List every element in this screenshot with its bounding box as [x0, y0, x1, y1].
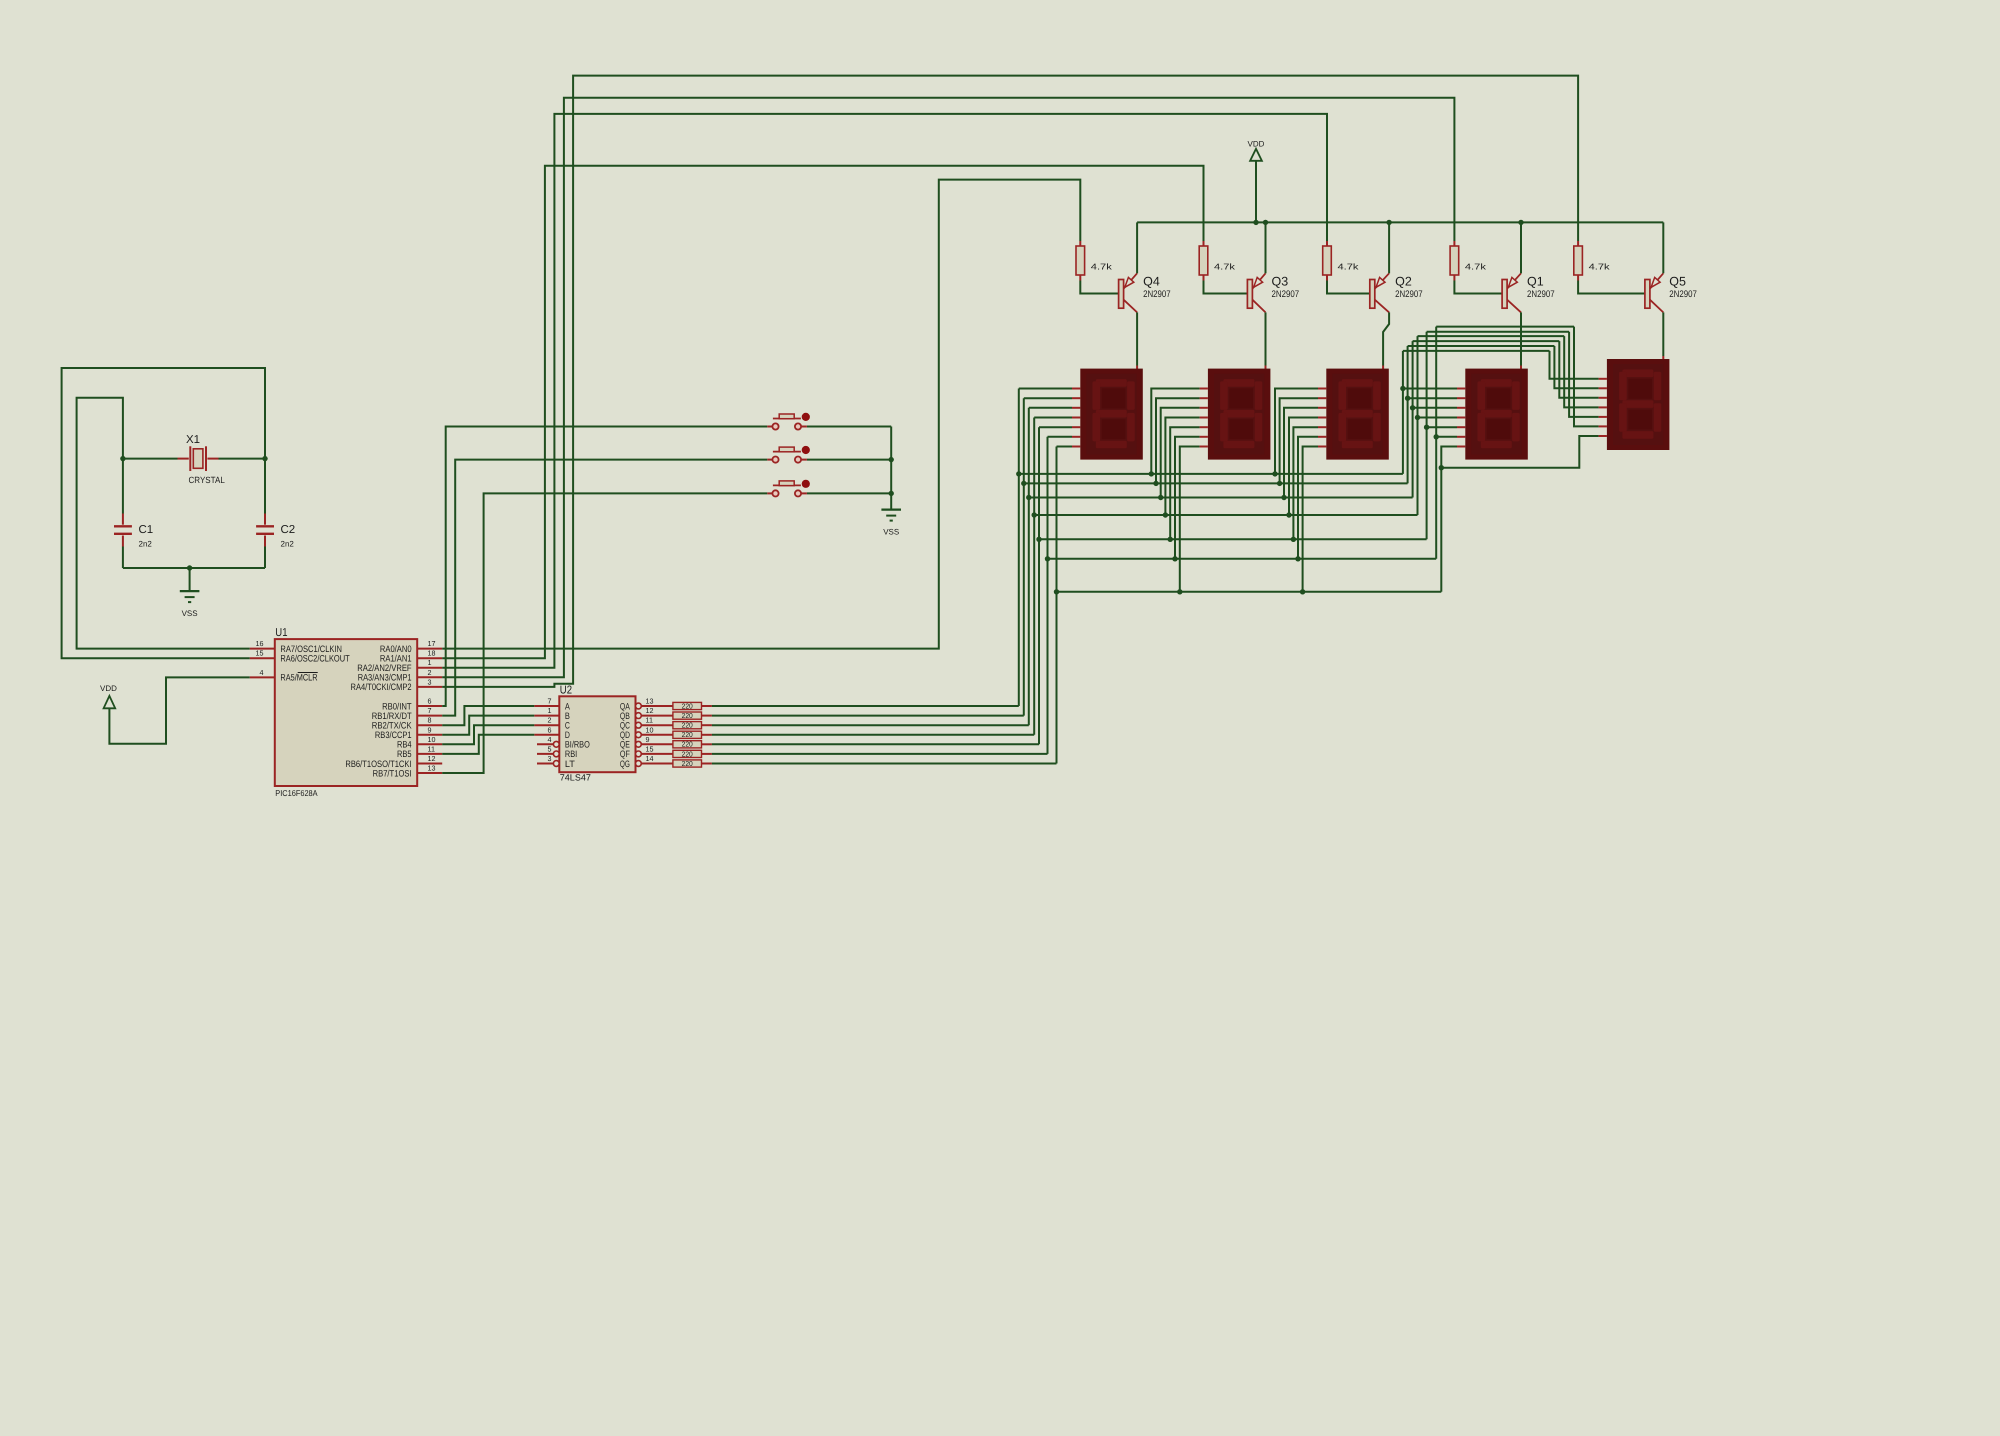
svg-text:B: B	[565, 711, 570, 721]
svg-text:220: 220	[682, 701, 693, 710]
svg-text:QF: QF	[620, 749, 630, 759]
svg-text:6: 6	[428, 697, 432, 706]
svg-text:9: 9	[428, 725, 432, 734]
svg-text:6: 6	[548, 725, 552, 734]
svg-text:Q1: Q1	[1527, 275, 1544, 289]
svg-text:D: D	[565, 730, 570, 740]
svg-text:220: 220	[682, 740, 693, 749]
svg-text:QD: QD	[620, 730, 630, 740]
svg-text:QG: QG	[620, 759, 630, 769]
svg-text:220: 220	[682, 749, 693, 758]
svg-text:Q3: Q3	[1272, 275, 1289, 289]
svg-text:VDD: VDD	[100, 684, 117, 693]
svg-text:3: 3	[428, 677, 432, 686]
svg-text:220: 220	[682, 711, 693, 720]
svg-text:7: 7	[548, 697, 552, 706]
svg-text:9: 9	[646, 735, 650, 744]
svg-text:2n2: 2n2	[281, 540, 295, 549]
svg-text:3: 3	[548, 754, 552, 763]
svg-text:74LS47: 74LS47	[560, 773, 591, 783]
svg-text:4.7k: 4.7k	[1338, 261, 1360, 271]
svg-text:U1: U1	[275, 627, 287, 639]
svg-text:RB6/T1OSO/T1CKI: RB6/T1OSO/T1CKI	[345, 759, 411, 769]
svg-text:Q2: Q2	[1395, 275, 1412, 289]
svg-text:220: 220	[682, 721, 693, 730]
svg-text:QA: QA	[620, 701, 631, 711]
svg-text:RA4/T0CKI/CMP2: RA4/T0CKI/CMP2	[351, 682, 412, 692]
svg-text:A: A	[565, 701, 571, 711]
svg-text:220: 220	[682, 759, 693, 768]
svg-text:2N2907: 2N2907	[1395, 289, 1423, 300]
svg-text:Q5: Q5	[1669, 275, 1686, 289]
svg-text:18: 18	[428, 649, 436, 658]
svg-text:13: 13	[646, 697, 654, 706]
svg-text:VSS: VSS	[883, 528, 899, 537]
svg-text:11: 11	[428, 744, 435, 753]
svg-text:RA3/AN3/CMP1: RA3/AN3/CMP1	[358, 673, 412, 683]
svg-text:PIC16F628A: PIC16F628A	[275, 788, 318, 798]
svg-text:8: 8	[428, 716, 432, 725]
svg-text:4.7k: 4.7k	[1214, 261, 1236, 271]
svg-text:RA6/OSC2/CLKOUT: RA6/OSC2/CLKOUT	[280, 654, 350, 664]
svg-text:C1: C1	[139, 524, 154, 536]
svg-text:10: 10	[646, 725, 654, 734]
svg-text:4: 4	[548, 735, 552, 744]
svg-text:2n2: 2n2	[139, 540, 153, 549]
svg-text:RA1/AN1: RA1/AN1	[380, 654, 412, 664]
svg-text:13: 13	[428, 764, 436, 773]
svg-text:14: 14	[646, 754, 654, 763]
svg-text:QB: QB	[620, 711, 630, 721]
svg-text:2: 2	[428, 668, 432, 677]
svg-text:7: 7	[428, 706, 432, 715]
svg-text:RB2/TX/CK: RB2/TX/CK	[372, 721, 412, 731]
svg-text:RB7/T1OSI: RB7/T1OSI	[373, 768, 412, 778]
svg-text:RB1/RX/DT: RB1/RX/DT	[372, 711, 412, 721]
svg-text:RBI: RBI	[565, 749, 577, 759]
svg-text:15: 15	[256, 649, 264, 658]
svg-text:4.7k: 4.7k	[1091, 261, 1113, 271]
svg-text:2N2907: 2N2907	[1272, 289, 1300, 300]
svg-text:12: 12	[646, 706, 654, 715]
svg-text:VDD: VDD	[1248, 140, 1265, 149]
svg-text:2N2907: 2N2907	[1143, 289, 1171, 300]
svg-text:1: 1	[428, 658, 432, 667]
svg-text:2: 2	[548, 716, 552, 725]
svg-text:220: 220	[682, 730, 693, 739]
svg-text:10: 10	[428, 735, 436, 744]
svg-text:BI/RBO: BI/RBO	[565, 740, 590, 750]
svg-text:RA5/MCLR: RA5/MCLR	[280, 673, 317, 683]
svg-text:4.7k: 4.7k	[1589, 261, 1611, 271]
svg-text:U2: U2	[560, 685, 572, 697]
svg-text:QE: QE	[620, 740, 630, 750]
svg-text:15: 15	[646, 744, 654, 753]
svg-text:VSS: VSS	[182, 609, 198, 618]
svg-text:C: C	[565, 721, 570, 731]
svg-text:RA0/AN0: RA0/AN0	[380, 644, 412, 654]
svg-text:4.7k: 4.7k	[1465, 261, 1487, 271]
svg-text:2N2907: 2N2907	[1527, 289, 1555, 300]
svg-text:5: 5	[548, 744, 552, 753]
svg-text:12: 12	[428, 754, 436, 763]
svg-text:17: 17	[428, 639, 436, 648]
svg-text:RB0/INT: RB0/INT	[382, 701, 412, 711]
svg-text:QC: QC	[620, 721, 630, 731]
svg-text:LT: LT	[565, 759, 575, 769]
svg-text:RA2/AN2/VREF: RA2/AN2/VREF	[357, 663, 412, 673]
svg-text:C2: C2	[281, 524, 296, 536]
svg-text:RB5: RB5	[397, 749, 412, 759]
svg-text:Q4: Q4	[1143, 275, 1160, 289]
svg-text:1: 1	[548, 706, 552, 715]
svg-text:4: 4	[260, 668, 264, 677]
svg-text:X1: X1	[186, 434, 200, 446]
svg-text:16: 16	[256, 639, 264, 648]
svg-text:2N2907: 2N2907	[1669, 289, 1697, 300]
svg-text:RB3/CCP1: RB3/CCP1	[375, 730, 412, 740]
svg-text:11: 11	[646, 716, 653, 725]
svg-text:RB4: RB4	[397, 740, 412, 750]
svg-text:CRYSTAL: CRYSTAL	[189, 475, 225, 485]
svg-text:RA7/OSC1/CLKIN: RA7/OSC1/CLKIN	[280, 644, 342, 654]
